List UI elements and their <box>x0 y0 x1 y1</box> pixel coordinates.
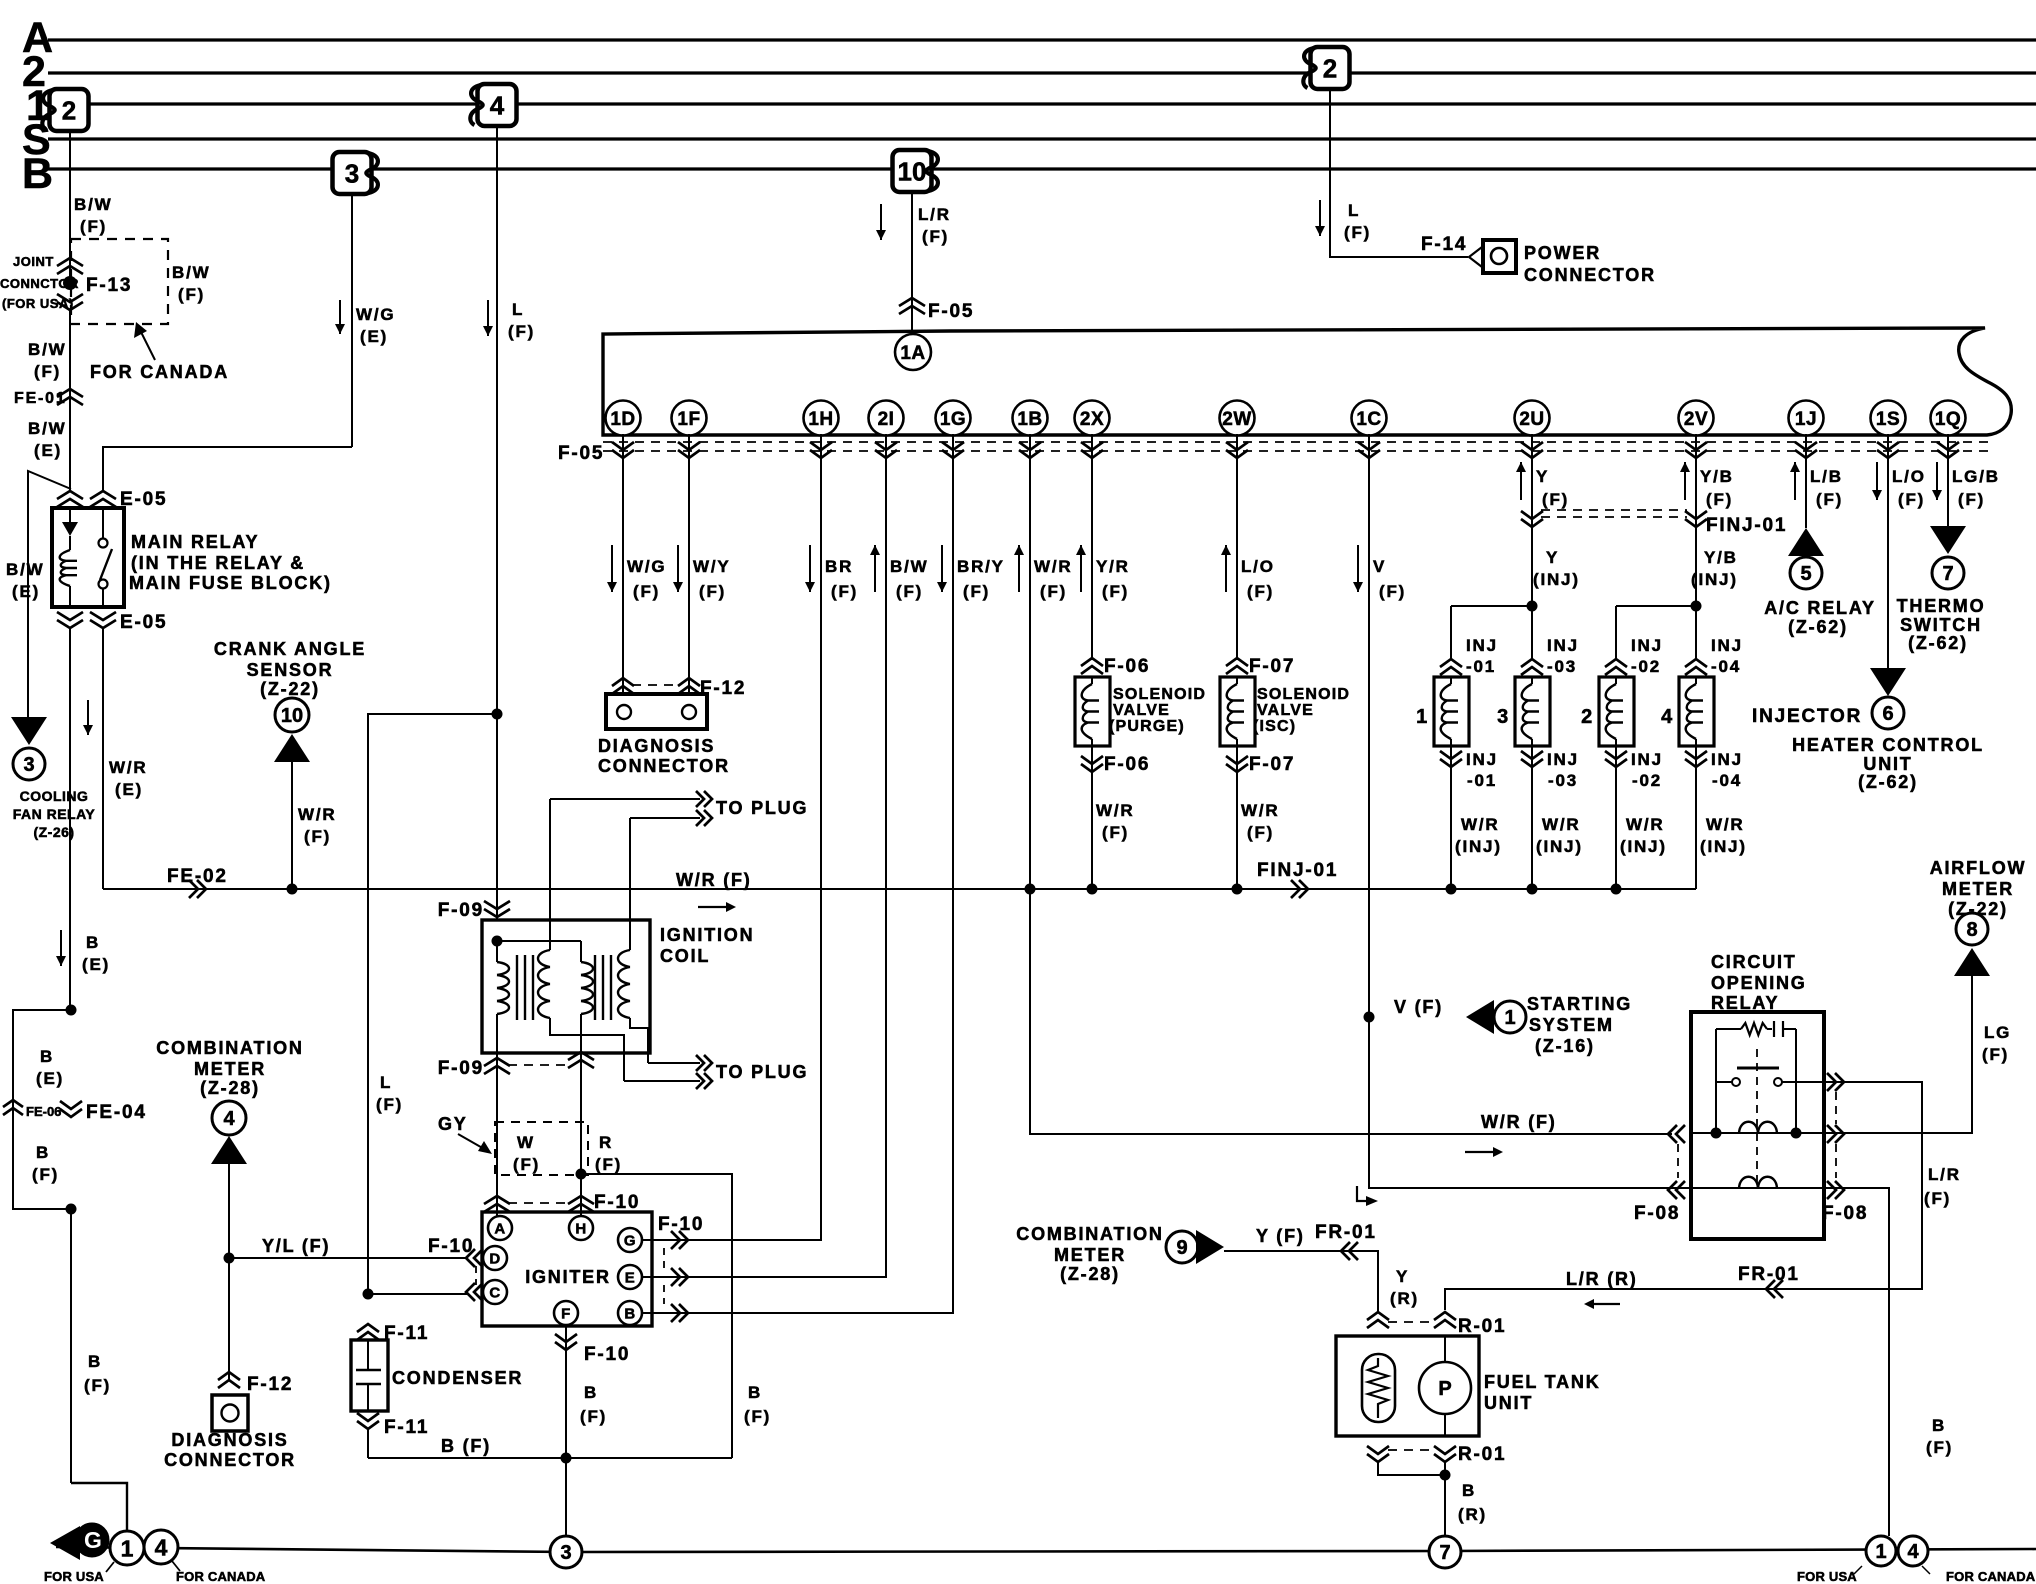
label F-11 upper <box>384 1323 429 1344</box>
igniter box <box>482 1212 652 1326</box>
main relay switch <box>99 508 113 607</box>
wire L (F) from fuse 4 down <box>496 127 498 714</box>
ECU terminal 1A <box>895 334 931 370</box>
svg-text:A: A <box>494 1220 505 1237</box>
svg-text:SWITCH: SWITCH <box>1900 615 1982 635</box>
ground junction circle 4 left <box>144 1530 178 1564</box>
svg-text:L/R (R): L/R (R) <box>1566 1269 1638 1289</box>
injector 1 with INJ-01 connectors <box>1416 606 1502 889</box>
label B (F) on R branch column <box>744 1383 771 1426</box>
svg-text:(F): (F) <box>304 827 331 846</box>
svg-text:IGNITER: IGNITER <box>525 1267 611 1287</box>
label LG (F) <box>1982 1023 2011 1064</box>
wire V (F) from 1C down <box>1368 434 1370 1017</box>
wire relay lower coil line <box>1691 1187 1824 1189</box>
ground junction circle 7 <box>1429 1536 1461 1568</box>
main relay coil winding <box>60 550 77 607</box>
igniter terminal E <box>618 1265 642 1289</box>
label A/C RELAY (Z-62) <box>1764 598 1876 637</box>
svg-text:1C: 1C <box>1356 409 1381 430</box>
svg-text:B (F): B (F) <box>441 1436 491 1456</box>
svg-text:W/Y: W/Y <box>693 557 731 576</box>
connector F-10 chevrons left of igniter <box>466 1249 483 1301</box>
node 1B at W/R bus <box>1025 884 1036 895</box>
svg-text:4: 4 <box>490 90 505 120</box>
svg-text:(E): (E) <box>36 1069 64 1088</box>
connector F-09 chevron upper <box>484 901 510 917</box>
svg-text:OPENING: OPENING <box>1711 973 1807 993</box>
F-10 dashed line above igniter <box>508 1202 572 1204</box>
svg-text:W/R: W/R <box>1241 801 1279 820</box>
ignition coil T1 secondary <box>538 920 624 1081</box>
svg-text:F-12: F-12 <box>247 1374 293 1395</box>
connector F-12 chevron above diagnosis connector <box>218 1372 240 1388</box>
label MAIN RELAY <box>129 532 332 593</box>
svg-text:(F): (F) <box>513 1155 540 1174</box>
svg-text:L: L <box>1348 201 1360 220</box>
relay mechanical dashed link <box>1756 1049 1758 1186</box>
svg-text:A/C RELAY: A/C RELAY <box>1764 598 1876 618</box>
joint connector F-13 node (FOR USA) <box>63 276 77 290</box>
bus wire B left segment <box>48 167 337 170</box>
node R branch <box>576 1169 587 1180</box>
svg-text:INJ: INJ <box>1711 750 1743 769</box>
ECU terminal 1B <box>1013 401 1048 436</box>
wire L (F) from fuse 2 right <box>1330 89 1468 257</box>
svg-text:BR: BR <box>825 557 853 576</box>
dashed box FOR CANADA bypass <box>71 239 168 324</box>
svg-text:(F): (F) <box>1926 1438 1953 1457</box>
svg-text:BR/Y: BR/Y <box>957 557 1005 576</box>
svg-text:CONNCTOR: CONNCTOR <box>0 276 79 291</box>
svg-text:F-06: F-06 <box>1104 754 1150 775</box>
A/C relay circle 5 <box>1790 557 1822 589</box>
thermo switch circle 7 <box>1932 557 1964 589</box>
node relay coil left <box>1711 1128 1722 1139</box>
wire W/G from 1D <box>622 434 624 694</box>
connector R-01 chevrons upper <box>1367 1312 1456 1328</box>
label V (F) <box>1394 997 1443 1017</box>
F-05 harness dashed lines <box>603 442 1990 451</box>
relay contact bar <box>1737 1067 1779 1070</box>
svg-text:(INJ): (INJ) <box>1620 837 1667 856</box>
label Y/R (F) on 2X wire <box>1076 545 1130 601</box>
ground bus wire <box>56 1547 2036 1552</box>
connector FR-01 chevron on L/R <box>1766 1280 1783 1298</box>
svg-text:3: 3 <box>560 1542 571 1564</box>
svg-text:CIRCUIT: CIRCUIT <box>1711 952 1797 972</box>
wire W/G elbow to relay <box>103 447 352 491</box>
svg-text:3: 3 <box>1497 706 1510 728</box>
svg-text:(E): (E) <box>115 780 143 799</box>
ECU terminal 1D <box>606 401 641 436</box>
wire B (F) horizontal <box>368 1457 732 1459</box>
svg-text:(E): (E) <box>12 582 40 601</box>
ECU terminal 1C <box>1352 401 1387 436</box>
arrow down on W/G wire <box>335 300 345 334</box>
svg-text:B/W: B/W <box>890 557 928 576</box>
label SOLENOID VALVE (ISC) <box>1253 686 1350 735</box>
label FE-04 <box>86 1102 147 1123</box>
combination meter 9 arrow <box>1196 1230 1224 1264</box>
svg-text:IGNITION: IGNITION <box>660 925 754 945</box>
svg-text:V: V <box>1373 557 1386 576</box>
ECU box outline <box>603 328 2011 435</box>
svg-text:W/R (F): W/R (F) <box>1481 1112 1557 1132</box>
label DIAGNOSIS CONNECTOR lower <box>164 1430 296 1470</box>
svg-text:10: 10 <box>898 156 927 186</box>
node L branch junction <box>492 709 503 720</box>
label FE-06 <box>26 1104 61 1119</box>
wire L/R (F) contact to fuel tank <box>1445 1082 1922 1310</box>
svg-text:(E): (E) <box>82 955 110 974</box>
airflow meter circle 8 <box>1956 913 1988 945</box>
svg-text:4: 4 <box>155 1534 168 1560</box>
FINJ-01 dashed lines <box>1541 510 1687 517</box>
svg-text:W/R: W/R <box>1542 815 1580 834</box>
svg-text:D: D <box>489 1250 500 1267</box>
svg-text:3: 3 <box>23 754 34 776</box>
label F-12 upper <box>700 678 746 699</box>
bus wire 1 left segment <box>88 102 476 105</box>
svg-text:STARTING: STARTING <box>1527 994 1632 1014</box>
svg-text:INJ: INJ <box>1711 636 1743 655</box>
svg-text:F-07: F-07 <box>1249 656 1295 677</box>
connector FINJ-01 chevrons on 2U/2V <box>1521 511 1707 527</box>
label F-08 left <box>1634 1203 1680 1224</box>
node fuel tank ground junction <box>1440 1470 1451 1481</box>
ground symbol G <box>50 1523 109 1560</box>
combination meter circle 9 <box>1166 1231 1198 1263</box>
svg-text:2U: 2U <box>1519 409 1544 430</box>
wire Y/B (INJ) from 2V <box>1695 434 1697 606</box>
wire L/R from fuse 10 down to ECU 1A <box>911 192 913 335</box>
svg-text:(R): (R) <box>1390 1289 1419 1308</box>
connector FE-04 chevrons <box>60 1101 82 1117</box>
svg-text:F-11: F-11 <box>384 1323 429 1344</box>
svg-text:TO PLUG: TO PLUG <box>716 798 808 818</box>
label TO PLUG lower <box>716 1062 808 1082</box>
svg-text:(F): (F) <box>1102 582 1129 601</box>
wire igniter F to B(F) junction <box>565 1326 567 1458</box>
label W (F) <box>513 1133 540 1174</box>
condenser box <box>351 1340 388 1411</box>
svg-text:P: P <box>1438 1378 1451 1400</box>
svg-text:1D: 1D <box>610 409 635 430</box>
label FOR USA right <box>1797 1566 1862 1584</box>
ECU terminal 2I <box>869 401 904 436</box>
svg-text:W/R: W/R <box>1034 557 1072 576</box>
bus label S <box>22 116 51 164</box>
wire igniter E to ECU 2I <box>642 434 886 1277</box>
svg-text:LG/B: LG/B <box>1952 467 2000 486</box>
svg-text:(Z-22): (Z-22) <box>1948 899 2008 919</box>
svg-text:Y/B: Y/B <box>1700 467 1734 486</box>
relay contact right pole <box>1774 1078 1824 1086</box>
label COMBINATION METER (Z-28) right <box>1016 1224 1163 1284</box>
svg-text:FOR USA: FOR USA <box>44 1569 104 1584</box>
svg-text:FAN RELAY: FAN RELAY <box>13 806 96 822</box>
svg-text:AIRFLOW: AIRFLOW <box>1930 858 2027 878</box>
bypass box left wire <box>13 1010 71 1209</box>
svg-text:L: L <box>512 300 524 319</box>
ignition coil T2 primary <box>581 941 593 1053</box>
svg-text:(F): (F) <box>922 227 949 246</box>
ground junction circle 4 right <box>1898 1536 1928 1566</box>
svg-text:HEATER CONTROL: HEATER CONTROL <box>1792 735 1984 755</box>
svg-text:-01: -01 <box>1466 657 1496 676</box>
svg-text:-04: -04 <box>1712 771 1742 790</box>
svg-text:(FOR USA): (FOR USA) <box>2 296 74 311</box>
svg-text:LG: LG <box>1984 1023 2011 1042</box>
svg-text:7: 7 <box>1439 1542 1450 1564</box>
wire B (E) main down <box>69 628 71 1010</box>
svg-text:L: L <box>380 1073 392 1092</box>
connector FE-02 chevrons <box>189 880 206 898</box>
wire to plug 3 <box>648 1055 712 1071</box>
svg-text:GY: GY <box>438 1114 468 1134</box>
bus label B <box>22 150 53 198</box>
svg-text:E-05: E-05 <box>120 612 167 633</box>
L-shaped flow arrow <box>1357 1186 1378 1206</box>
bus wire 1 right segment <box>518 102 2036 105</box>
wire condenser down to B(F) <box>367 1429 369 1458</box>
svg-text:F-07: F-07 <box>1249 754 1295 775</box>
svg-text:10: 10 <box>281 705 303 727</box>
connector FR-01 chevron on Y <box>1341 1242 1358 1260</box>
bus wire 2 right segment <box>1350 71 2036 74</box>
svg-text:1G: 1G <box>940 409 966 430</box>
label F-14 <box>1421 234 1467 255</box>
svg-text:L/B: L/B <box>1810 467 1843 486</box>
label LG/B (F) on 1Q wire <box>1932 462 2000 509</box>
svg-text:B/W: B/W <box>28 340 66 359</box>
svg-text:3: 3 <box>345 158 359 188</box>
wire igniter B to ECU 1G <box>642 434 953 1313</box>
svg-text:B: B <box>40 1047 54 1066</box>
label Y/B (F) on 2V wire <box>1680 462 1734 509</box>
label B/W (F) upper <box>74 195 112 236</box>
label W/R (F) to relay <box>1481 1112 1557 1132</box>
wire condenser to igniter C <box>368 1293 468 1295</box>
wire W/R relay to airflow meter <box>1824 976 1972 1133</box>
ignition coil T2 core <box>595 955 611 1020</box>
label B (F) near F wire <box>580 1383 607 1426</box>
wire B (F) down-left <box>70 1209 72 1483</box>
label Y/B (INJ) <box>1691 548 1738 589</box>
connector E-05 chevrons above main relay <box>57 491 116 507</box>
svg-text:1B: 1B <box>1017 409 1042 430</box>
fuse box 3 (on line B) <box>333 152 378 194</box>
svg-text:VALVE: VALVE <box>1113 702 1170 719</box>
svg-text:UNIT: UNIT <box>1484 1393 1533 1413</box>
svg-text:INJ: INJ <box>1631 750 1663 769</box>
svg-text:(F): (F) <box>831 582 858 601</box>
svg-text:(F): (F) <box>1344 223 1371 242</box>
svg-text:Y: Y <box>1536 467 1549 486</box>
label BR (F) on 1H wire <box>805 545 858 601</box>
label L (F) fuse4 <box>508 300 535 341</box>
label STARTING SYSTEM (Z-16) <box>1527 994 1632 1056</box>
wire to plug upper <box>550 791 712 920</box>
connector F-05 chevrons on all terminal wires <box>612 442 1959 458</box>
svg-text:(F): (F) <box>1982 1045 2009 1064</box>
wire injector1 top link <box>1451 605 1532 607</box>
label Y (F) <box>1256 1226 1305 1246</box>
node Y/L junction <box>224 1253 235 1264</box>
label F-05 left <box>558 443 604 464</box>
svg-text:Y/R: Y/R <box>1096 557 1130 576</box>
ECU terminal 1Q <box>1931 401 1966 436</box>
label B/W (F) lower <box>28 340 66 381</box>
arrow right on W/R wire <box>698 902 736 912</box>
svg-text:7: 7 <box>1942 563 1953 585</box>
ECU terminal 2V <box>1679 401 1714 436</box>
wire W/R (E) from relay switch down <box>102 628 104 889</box>
svg-text:(INJ): (INJ) <box>1455 837 1502 856</box>
svg-text:F-06: F-06 <box>1104 656 1150 677</box>
solenoid valve PURGE with F-06 connectors and W/R wire <box>1075 434 1150 889</box>
svg-text:F-08: F-08 <box>1634 1203 1680 1224</box>
connector FE-06 chevrons <box>3 1100 23 1115</box>
connector F-11 chevrons upper <box>357 1324 379 1340</box>
label L (F) condenser column <box>376 1073 403 1114</box>
svg-text:DIAGNOSIS: DIAGNOSIS <box>171 1430 288 1450</box>
node relay coil right <box>1791 1128 1802 1139</box>
svg-text:(F): (F) <box>1924 1189 1951 1208</box>
svg-text:INJECTOR: INJECTOR <box>1752 706 1862 727</box>
wire L/B to A/C relay <box>1805 434 1807 528</box>
svg-text:COMBINATION: COMBINATION <box>1016 1224 1163 1244</box>
svg-text:INJ: INJ <box>1631 636 1663 655</box>
svg-text:(PURGE): (PURGE) <box>1109 718 1185 735</box>
power connector arrowhead <box>1469 247 1482 267</box>
label F-09 upper <box>438 900 484 921</box>
connector F-05 chevron on 1A wire <box>899 298 925 314</box>
label B/W (E) <box>28 419 66 460</box>
svg-text:FR-01: FR-01 <box>1738 1264 1800 1285</box>
svg-text:L/O: L/O <box>1241 557 1275 576</box>
svg-text:COMBINATION: COMBINATION <box>156 1038 303 1058</box>
wire Y/L from combination meter down <box>228 1164 230 1381</box>
node B(E) bypass top <box>66 1005 77 1016</box>
svg-text:Y: Y <box>1546 548 1559 567</box>
wire W/R (F) 1B to circuit opening relay <box>1030 434 1672 1134</box>
ECU terminal 1J <box>1789 401 1824 436</box>
svg-text:F-10: F-10 <box>584 1344 630 1365</box>
label FE-01 <box>14 390 67 407</box>
svg-text:1A: 1A <box>900 343 925 364</box>
ECU terminal 1G <box>936 401 971 436</box>
label B (E) <box>82 933 110 974</box>
label B (F) lower left <box>84 1352 111 1395</box>
ECU terminal 2W <box>1220 401 1255 436</box>
label FINJ-01 on W/R bus <box>1257 860 1338 881</box>
svg-text:V (F): V (F) <box>1394 997 1443 1017</box>
svg-text:THERMO: THERMO <box>1897 596 1986 616</box>
connector F-12 chevrons <box>612 678 700 694</box>
label FR-01 right <box>1738 1264 1800 1285</box>
joint connector F-13 chevrons down <box>57 294 83 310</box>
svg-text:2W: 2W <box>1222 409 1252 430</box>
circuit opening relay box <box>1691 1012 1824 1239</box>
label E-05 lower <box>120 612 167 633</box>
label E-05 upper <box>120 489 167 510</box>
label L/R (F) <box>918 205 951 246</box>
ignition coil T2 secondary <box>618 920 648 1063</box>
label SOLENOID VALVE (PURGE) <box>1109 686 1206 735</box>
wire Y (INJ) from 2U <box>1531 434 1533 606</box>
connector F-08 chevrons right <box>1827 1073 1844 1199</box>
label Y (F) on 2U wire <box>1516 462 1569 509</box>
label FINJ-01 upper <box>1706 515 1787 536</box>
connector F-11 chevrons lower <box>357 1413 379 1429</box>
svg-text:E-05: E-05 <box>120 489 167 510</box>
node injector1 junction <box>1446 884 1457 895</box>
svg-text:4: 4 <box>223 1108 235 1130</box>
relay upper coil <box>1739 1122 1777 1133</box>
svg-text:(F): (F) <box>508 322 535 341</box>
svg-text:B: B <box>584 1383 598 1402</box>
svg-text:COIL: COIL <box>660 946 710 966</box>
ground junction circle 1 left <box>110 1531 144 1565</box>
wire L down to ignition coil <box>496 714 498 920</box>
wire Y/L (F) horizontal to igniter D <box>229 1257 468 1259</box>
bus label 2 <box>22 48 46 96</box>
airflow meter arrow <box>1954 948 1990 976</box>
connector R-01 chevrons lower <box>1367 1446 1456 1462</box>
svg-text:W/R: W/R <box>1626 815 1664 834</box>
svg-text:-02: -02 <box>1632 771 1662 790</box>
svg-text:(F): (F) <box>1247 823 1274 842</box>
wire to plug 4 <box>624 1073 712 1089</box>
label FOR CANADA left <box>172 1561 266 1584</box>
connector F-10 chevrons right of igniter <box>671 1231 688 1322</box>
wire L/O to heater control <box>1887 434 1889 668</box>
svg-text:B/W: B/W <box>74 195 112 214</box>
label AIRFLOW METER (Z-22) <box>1930 858 2027 919</box>
svg-text:FE-01: FE-01 <box>14 390 67 407</box>
svg-text:(R): (R) <box>1458 1505 1487 1524</box>
svg-text:B: B <box>624 1305 635 1322</box>
svg-text:(F): (F) <box>699 582 726 601</box>
relay inner top rail with resistor and contact <box>1716 1021 1796 1037</box>
svg-text:FR-01: FR-01 <box>1315 1222 1377 1243</box>
label Y (R) <box>1390 1267 1419 1308</box>
label HEATER CONTROL UNIT (Z-62) <box>1792 735 1984 792</box>
svg-text:(F): (F) <box>376 1095 403 1114</box>
svg-text:(F): (F) <box>1542 490 1569 509</box>
svg-text:6: 6 <box>1882 703 1893 725</box>
svg-text:(Z-26): (Z-26) <box>33 824 74 840</box>
svg-text:FINJ-01: FINJ-01 <box>1706 515 1787 536</box>
svg-text:2: 2 <box>62 95 76 125</box>
svg-text:(F): (F) <box>595 1155 622 1174</box>
svg-text:(F): (F) <box>963 582 990 601</box>
svg-text:(F): (F) <box>178 285 205 304</box>
svg-text:B: B <box>748 1383 762 1402</box>
label JOINT CONNCTOR (FOR USA) <box>0 254 79 311</box>
svg-text:FE-04: FE-04 <box>86 1102 147 1123</box>
label B/W (E) at cooling fan wire <box>6 560 44 601</box>
combination meter circle 4 <box>212 1101 246 1135</box>
arrow down on B(E) wire <box>56 930 66 966</box>
wire L branch to condenser column <box>368 714 497 1294</box>
F-12 dashed line <box>632 684 680 686</box>
node V(F) junction <box>1364 1012 1375 1023</box>
igniter terminal A <box>488 1216 512 1240</box>
connector E-05 chevrons below main relay <box>57 612 116 628</box>
